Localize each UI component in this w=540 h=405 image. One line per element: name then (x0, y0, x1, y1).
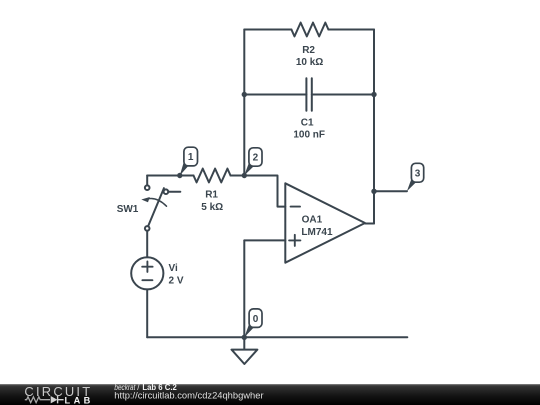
wire: op-amp non-inverting input vertical (243, 240, 245, 337)
op-amp OA1 non-inverting input plus sign (289, 235, 300, 246)
voltage source Vi (131, 257, 163, 289)
voltage source Vi plus sign (142, 262, 152, 272)
node 1 badge (184, 147, 198, 166)
junction: node 3 dot (371, 189, 376, 194)
switch SW1 right throw contact (164, 189, 169, 194)
voltage source Vi minus sign (142, 279, 152, 281)
svg-text:http://circuitlab.com/cdz24qhb: http://circuitlab.com/cdz24qhbgwher (114, 391, 263, 401)
svg-text:LAB: LAB (65, 395, 91, 405)
resistor R1 (194, 169, 231, 183)
junction: node 2 dot (242, 173, 247, 178)
wire: top lead right of R2 (328, 29, 374, 31)
node 3 badge (411, 163, 423, 182)
svg-text:2: 2 (253, 153, 259, 164)
wire: ground stub (243, 337, 245, 349)
wire: op-amp non-inverting input horizontal (244, 239, 285, 241)
wire: capacitor C1 right lead (312, 94, 374, 96)
switch SW1 common contact (145, 226, 150, 231)
wire: input wire from switch to R1 (147, 175, 193, 177)
node 0 badge (249, 309, 262, 328)
wire: feedback loop left vertical (node 2 up to R2) (243, 30, 245, 176)
wire: node 3 tap (374, 190, 407, 192)
svg-text:0: 0 (253, 314, 259, 325)
wire: stub from input wire down to switch left throw (146, 176, 148, 186)
wire: feedback loop right vertical (R2 down to op-amp output) (373, 30, 375, 224)
node 2 badge pointer (244, 163, 253, 175)
CircuitLab logo diode (51, 396, 58, 403)
node 3 badge pointer (407, 180, 416, 192)
footer bar (0, 384, 540, 405)
svg-text:5 kΩ: 5 kΩ (201, 202, 223, 213)
svg-text:SW1: SW1 (117, 204, 139, 215)
node 2 badge (249, 148, 262, 166)
svg-text:100 nF: 100 nF (293, 129, 325, 140)
svg-text:Vi: Vi (169, 263, 178, 274)
svg-text:LM741: LM741 (301, 227, 333, 238)
junction: C1 left dot (242, 92, 247, 97)
svg-text:C1: C1 (301, 117, 314, 128)
svg-text:3: 3 (415, 168, 421, 179)
ground symbol (232, 350, 258, 364)
switch SW1 toggle arrow arc (147, 199, 167, 207)
wire: switch right throw stub (168, 191, 180, 193)
node 0 badge pointer (244, 325, 253, 338)
wire: R1 to node 2 (231, 175, 245, 177)
wire: bottom ground rail (147, 336, 407, 338)
wire: source bottom to ground rail corner (146, 289, 148, 337)
wire: top lead left of R2 (244, 29, 291, 31)
wire: capacitor C1 left lead (244, 94, 306, 96)
junction: C1 right dot (371, 92, 376, 97)
svg-text:R2: R2 (302, 45, 315, 56)
op-amp OA1 triangle (285, 183, 365, 262)
capacitor C1 (306, 78, 311, 110)
svg-text:2 V: 2 V (169, 276, 184, 287)
switch SW1 lever (148, 188, 164, 226)
switch SW1 left throw contact (145, 185, 150, 190)
op-amp OA1 inverting input minus sign (291, 206, 300, 208)
svg-text:R1: R1 (205, 190, 218, 201)
wire: node 2 to op-amp inverting input (244, 176, 285, 207)
switch SW1 arrow head (141, 197, 150, 202)
wire: switch common down to source Vi (146, 231, 148, 258)
CircuitLab logo resistor zigzag (25, 397, 50, 403)
node 1 badge pointer (180, 163, 189, 176)
svg-text:OA1: OA1 (302, 214, 323, 225)
junction: node 1 dot (177, 173, 182, 178)
wire: op-amp output to right vertical (365, 223, 374, 225)
svg-text:1: 1 (188, 152, 194, 163)
svg-text:10 kΩ: 10 kΩ (296, 57, 323, 68)
resistor R2 (291, 23, 328, 37)
junction: node 0 dot (242, 335, 247, 340)
